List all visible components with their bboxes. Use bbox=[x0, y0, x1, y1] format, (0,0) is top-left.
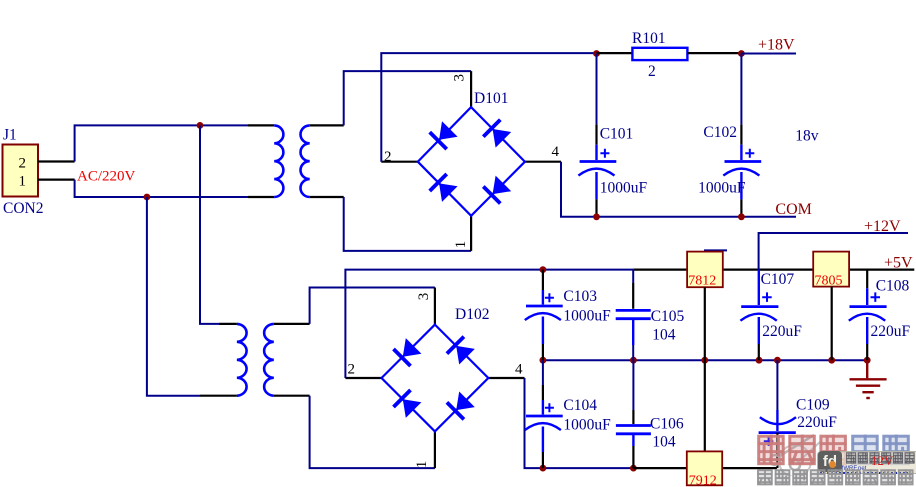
wire 7812 out to 7805 in bbox=[723, 269, 813, 271]
svg-text:104: 104 bbox=[652, 434, 676, 451]
pin 1 of D101 bbox=[470, 216, 472, 251]
wire J1-1 to T1 primary bottom bbox=[75, 180, 248, 197]
pin C108 top bbox=[866, 270, 868, 289]
junction 7805 ground bbox=[828, 357, 835, 364]
watermark fd logo bbox=[818, 451, 842, 472]
pin C105 top bbox=[632, 283, 634, 309]
svg-text:7805: 7805 bbox=[815, 274, 843, 289]
C101 lead bottom bbox=[595, 172, 597, 199]
wire D102 pin2 to regulator rail bbox=[345, 270, 633, 378]
pin C103 top bbox=[542, 270, 544, 290]
svg-text:C101: C101 bbox=[600, 126, 634, 143]
svg-text:2: 2 bbox=[19, 156, 27, 172]
C104 lead bottom bbox=[542, 427, 544, 453]
pin T2 secondary bottom bbox=[274, 395, 310, 397]
svg-text:C107: C107 bbox=[761, 271, 795, 288]
pin C106 bottom bbox=[632, 446, 634, 468]
junction C103/C104 mid bbox=[540, 357, 547, 364]
junction C108 bottom at ground bbox=[864, 357, 871, 364]
svg-text:COM: COM bbox=[775, 201, 811, 218]
pin C104 bottom bbox=[542, 452, 544, 468]
pin T1 secondary top bbox=[310, 124, 344, 126]
junction C103 top bbox=[540, 266, 547, 273]
wire AC top to T2 primary top bbox=[200, 125, 219, 324]
ground bbox=[850, 360, 887, 398]
svg-text:C106: C106 bbox=[650, 416, 684, 433]
pin 7805 ground bbox=[831, 287, 833, 361]
svg-text:1000uF: 1000uF bbox=[563, 308, 611, 325]
C108 lead bbox=[866, 288, 868, 305]
wire mid common rail bbox=[543, 359, 867, 361]
wire into 7912 bbox=[633, 467, 686, 469]
watermark badge chinese text bbox=[846, 452, 916, 465]
wire into 7812 bbox=[633, 269, 687, 271]
pin 4 of D102 bbox=[488, 377, 524, 379]
watermark badge box bbox=[817, 451, 916, 474]
svg-text:3: 3 bbox=[452, 74, 468, 82]
svg-text:+12V: +12V bbox=[864, 218, 901, 235]
pin C103 bottom bbox=[542, 344, 544, 360]
diode D101b top-right bbox=[493, 129, 512, 148]
transformer T2 primary winding bbox=[237, 324, 247, 396]
pin C106 top bbox=[632, 410, 634, 424]
svg-text:7912: 7912 bbox=[689, 474, 717, 487]
svg-text:+5V: +5V bbox=[884, 255, 913, 272]
C107 lead bottom bbox=[758, 317, 760, 344]
C105 lead bottom bbox=[632, 320, 634, 345]
junction C109 top bbox=[774, 357, 781, 364]
watermark compass doodle bbox=[762, 432, 822, 476]
svg-text:C102: C102 bbox=[703, 124, 737, 141]
wire D102 pin4 to bottom rail bbox=[525, 378, 543, 468]
wire +12V rail bbox=[759, 233, 908, 270]
pin T1 primary bottom bbox=[248, 196, 274, 198]
pin 2 of D102 bbox=[345, 377, 381, 379]
svg-text:104: 104 bbox=[652, 327, 676, 344]
junction R101 right / C102 top bbox=[738, 50, 745, 57]
svg-text:1: 1 bbox=[19, 174, 27, 190]
wire C101 top bbox=[596, 54, 598, 125]
wire T2 secondary top to D102 pin 3 bbox=[310, 288, 435, 324]
pin T2 secondary top bbox=[274, 323, 310, 325]
pin stub J1-2 bbox=[38, 160, 75, 162]
junction node AC line bottom bbox=[144, 194, 151, 201]
transformer T1 secondary winding bbox=[301, 125, 310, 197]
svg-text:C109: C109 bbox=[796, 397, 830, 414]
junction C106 bottom bbox=[630, 465, 637, 472]
7812 top mark bbox=[704, 249, 727, 251]
pin 4 of D101 bbox=[525, 161, 561, 163]
svg-text:+18V: +18V bbox=[758, 37, 795, 54]
junction R101 left / C101 top bbox=[593, 50, 600, 57]
svg-text:R101: R101 bbox=[632, 30, 666, 47]
C103 lead bottom bbox=[542, 317, 544, 345]
wire C102 top bbox=[740, 54, 742, 125]
watermark big text yidituo peixun bbox=[757, 434, 916, 468]
pin 2 of D101 bbox=[381, 161, 418, 163]
pin R101 right bbox=[687, 52, 741, 54]
svg-text:4: 4 bbox=[515, 362, 523, 378]
junction C102 bottom on COM bbox=[738, 213, 745, 220]
junction node AC line top bbox=[197, 122, 204, 129]
svg-text:1: 1 bbox=[453, 241, 469, 249]
svg-text:2: 2 bbox=[384, 149, 392, 165]
junction C105/C106 mid bbox=[630, 357, 637, 364]
svg-text:C103: C103 bbox=[563, 288, 597, 305]
wire COM rail bbox=[561, 162, 796, 217]
bridge rectifier D102 diamond bbox=[382, 325, 489, 432]
C102 lead bbox=[740, 145, 742, 160]
pin 3 of D101 bbox=[470, 71, 472, 107]
diode D101a top-left bbox=[439, 121, 458, 140]
wire bottom rail bbox=[543, 467, 634, 469]
svg-text:C104: C104 bbox=[563, 397, 597, 414]
connector J1 (CON2) bbox=[3, 145, 39, 197]
pin stub J1-1 bbox=[38, 179, 75, 181]
svg-text:J1: J1 bbox=[3, 127, 17, 144]
pin C107 bottom bbox=[758, 344, 760, 360]
C104 lead bbox=[542, 400, 544, 415]
svg-text:3: 3 bbox=[416, 293, 432, 301]
pin R101 left bbox=[597, 52, 633, 54]
C107 lead bbox=[758, 270, 760, 305]
junction regulator ground bbox=[701, 357, 708, 364]
pin C109 bottom bbox=[776, 433, 778, 469]
wire T1 secondary top to D101 pin 3 bbox=[344, 71, 471, 125]
pin 3 of D102 bbox=[434, 288, 436, 325]
C106 lead bottom bbox=[632, 435, 634, 446]
svg-text:C105: C105 bbox=[651, 308, 685, 325]
diode D102b top-right bbox=[456, 346, 475, 365]
wire C106 top bbox=[632, 360, 634, 410]
wire C104 top bbox=[542, 360, 544, 385]
svg-text:1: 1 bbox=[414, 461, 430, 469]
diode D102c bottom-left bbox=[403, 399, 422, 418]
C103 lead bbox=[542, 290, 544, 305]
wire T2 secondary bottom to D102 pin 1 bbox=[310, 396, 435, 468]
C101 lead bbox=[595, 145, 597, 160]
wire D101 pin2 to R101 node bbox=[381, 53, 596, 162]
svg-text:1000uF: 1000uF bbox=[563, 417, 611, 434]
svg-text:1000uF: 1000uF bbox=[600, 180, 648, 197]
pin T1 primary top bbox=[248, 124, 274, 126]
regulator 7805 bbox=[813, 252, 849, 287]
svg-text:CON2: CON2 bbox=[3, 200, 43, 217]
diode D101d bottom-right bbox=[493, 176, 512, 195]
pin T2 primary bottom bbox=[200, 395, 237, 397]
wire C105 top bbox=[632, 270, 634, 283]
wire +18V stub bbox=[741, 53, 796, 55]
watermark url line bbox=[820, 466, 908, 474]
C109 lead top bbox=[776, 410, 778, 431]
svg-text:C108: C108 bbox=[876, 278, 910, 295]
svg-text:2: 2 bbox=[348, 362, 356, 378]
wire 7912 out to C109 bbox=[722, 467, 777, 469]
wire C109 top bbox=[776, 360, 778, 410]
pin C104 top bbox=[542, 385, 544, 400]
watermark gray slogan bbox=[757, 469, 916, 487]
pin C108 bottom bbox=[866, 344, 868, 360]
pin C101 bottom bbox=[595, 199, 597, 216]
svg-text:D101: D101 bbox=[474, 90, 508, 107]
pin 7812 ground bbox=[704, 287, 706, 360]
svg-text:7812: 7812 bbox=[688, 274, 716, 289]
wire C105 bottom bbox=[632, 345, 634, 360]
transformer T2 secondary winding bbox=[264, 324, 274, 396]
svg-text:2: 2 bbox=[648, 63, 656, 80]
diode D102a top-left bbox=[403, 338, 422, 357]
svg-text:220uF: 220uF bbox=[762, 323, 802, 340]
bridge rectifier D101 diamond bbox=[418, 107, 525, 216]
pin 7912 supply bbox=[704, 360, 706, 451]
pin C102 top bbox=[740, 125, 742, 145]
C102 lead bottom bbox=[740, 172, 742, 199]
resistor R101 bbox=[632, 48, 687, 60]
pin T1 secondary bottom bbox=[310, 196, 344, 198]
wire 7805 out to +5V bbox=[849, 269, 914, 271]
svg-text:4: 4 bbox=[552, 144, 560, 160]
pin 1 of D102 bbox=[434, 431, 436, 468]
C108 lead bottom bbox=[866, 317, 868, 344]
svg-text:18v: 18v bbox=[795, 128, 819, 145]
pin C101 top bbox=[595, 125, 597, 145]
wire J1-2 to T1 primary top bbox=[75, 125, 248, 161]
svg-text:220uF: 220uF bbox=[871, 323, 911, 340]
pin C102 bottom bbox=[740, 199, 742, 216]
watermark 12V red text bbox=[871, 453, 893, 469]
transformer T1 primary winding bbox=[274, 125, 283, 197]
svg-text:1000uF: 1000uF bbox=[698, 180, 746, 197]
svg-text:AC/220V: AC/220V bbox=[77, 169, 136, 185]
svg-text:220uF: 220uF bbox=[797, 414, 837, 431]
junction C107 bottom bbox=[756, 357, 763, 364]
junction C101 bottom on COM bbox=[593, 213, 600, 220]
diode D101c bottom-left bbox=[439, 183, 458, 202]
junction C104 bottom bbox=[540, 465, 547, 472]
regulator 7912 bbox=[687, 451, 722, 485]
pin T2 primary top bbox=[219, 323, 237, 325]
svg-text:D102: D102 bbox=[455, 306, 489, 323]
wire AC bottom to T2 primary bottom bbox=[147, 197, 200, 396]
diode D102d bottom-right bbox=[456, 392, 475, 411]
wire T1 secondary bottom to D101 pin 1 bbox=[344, 197, 471, 251]
